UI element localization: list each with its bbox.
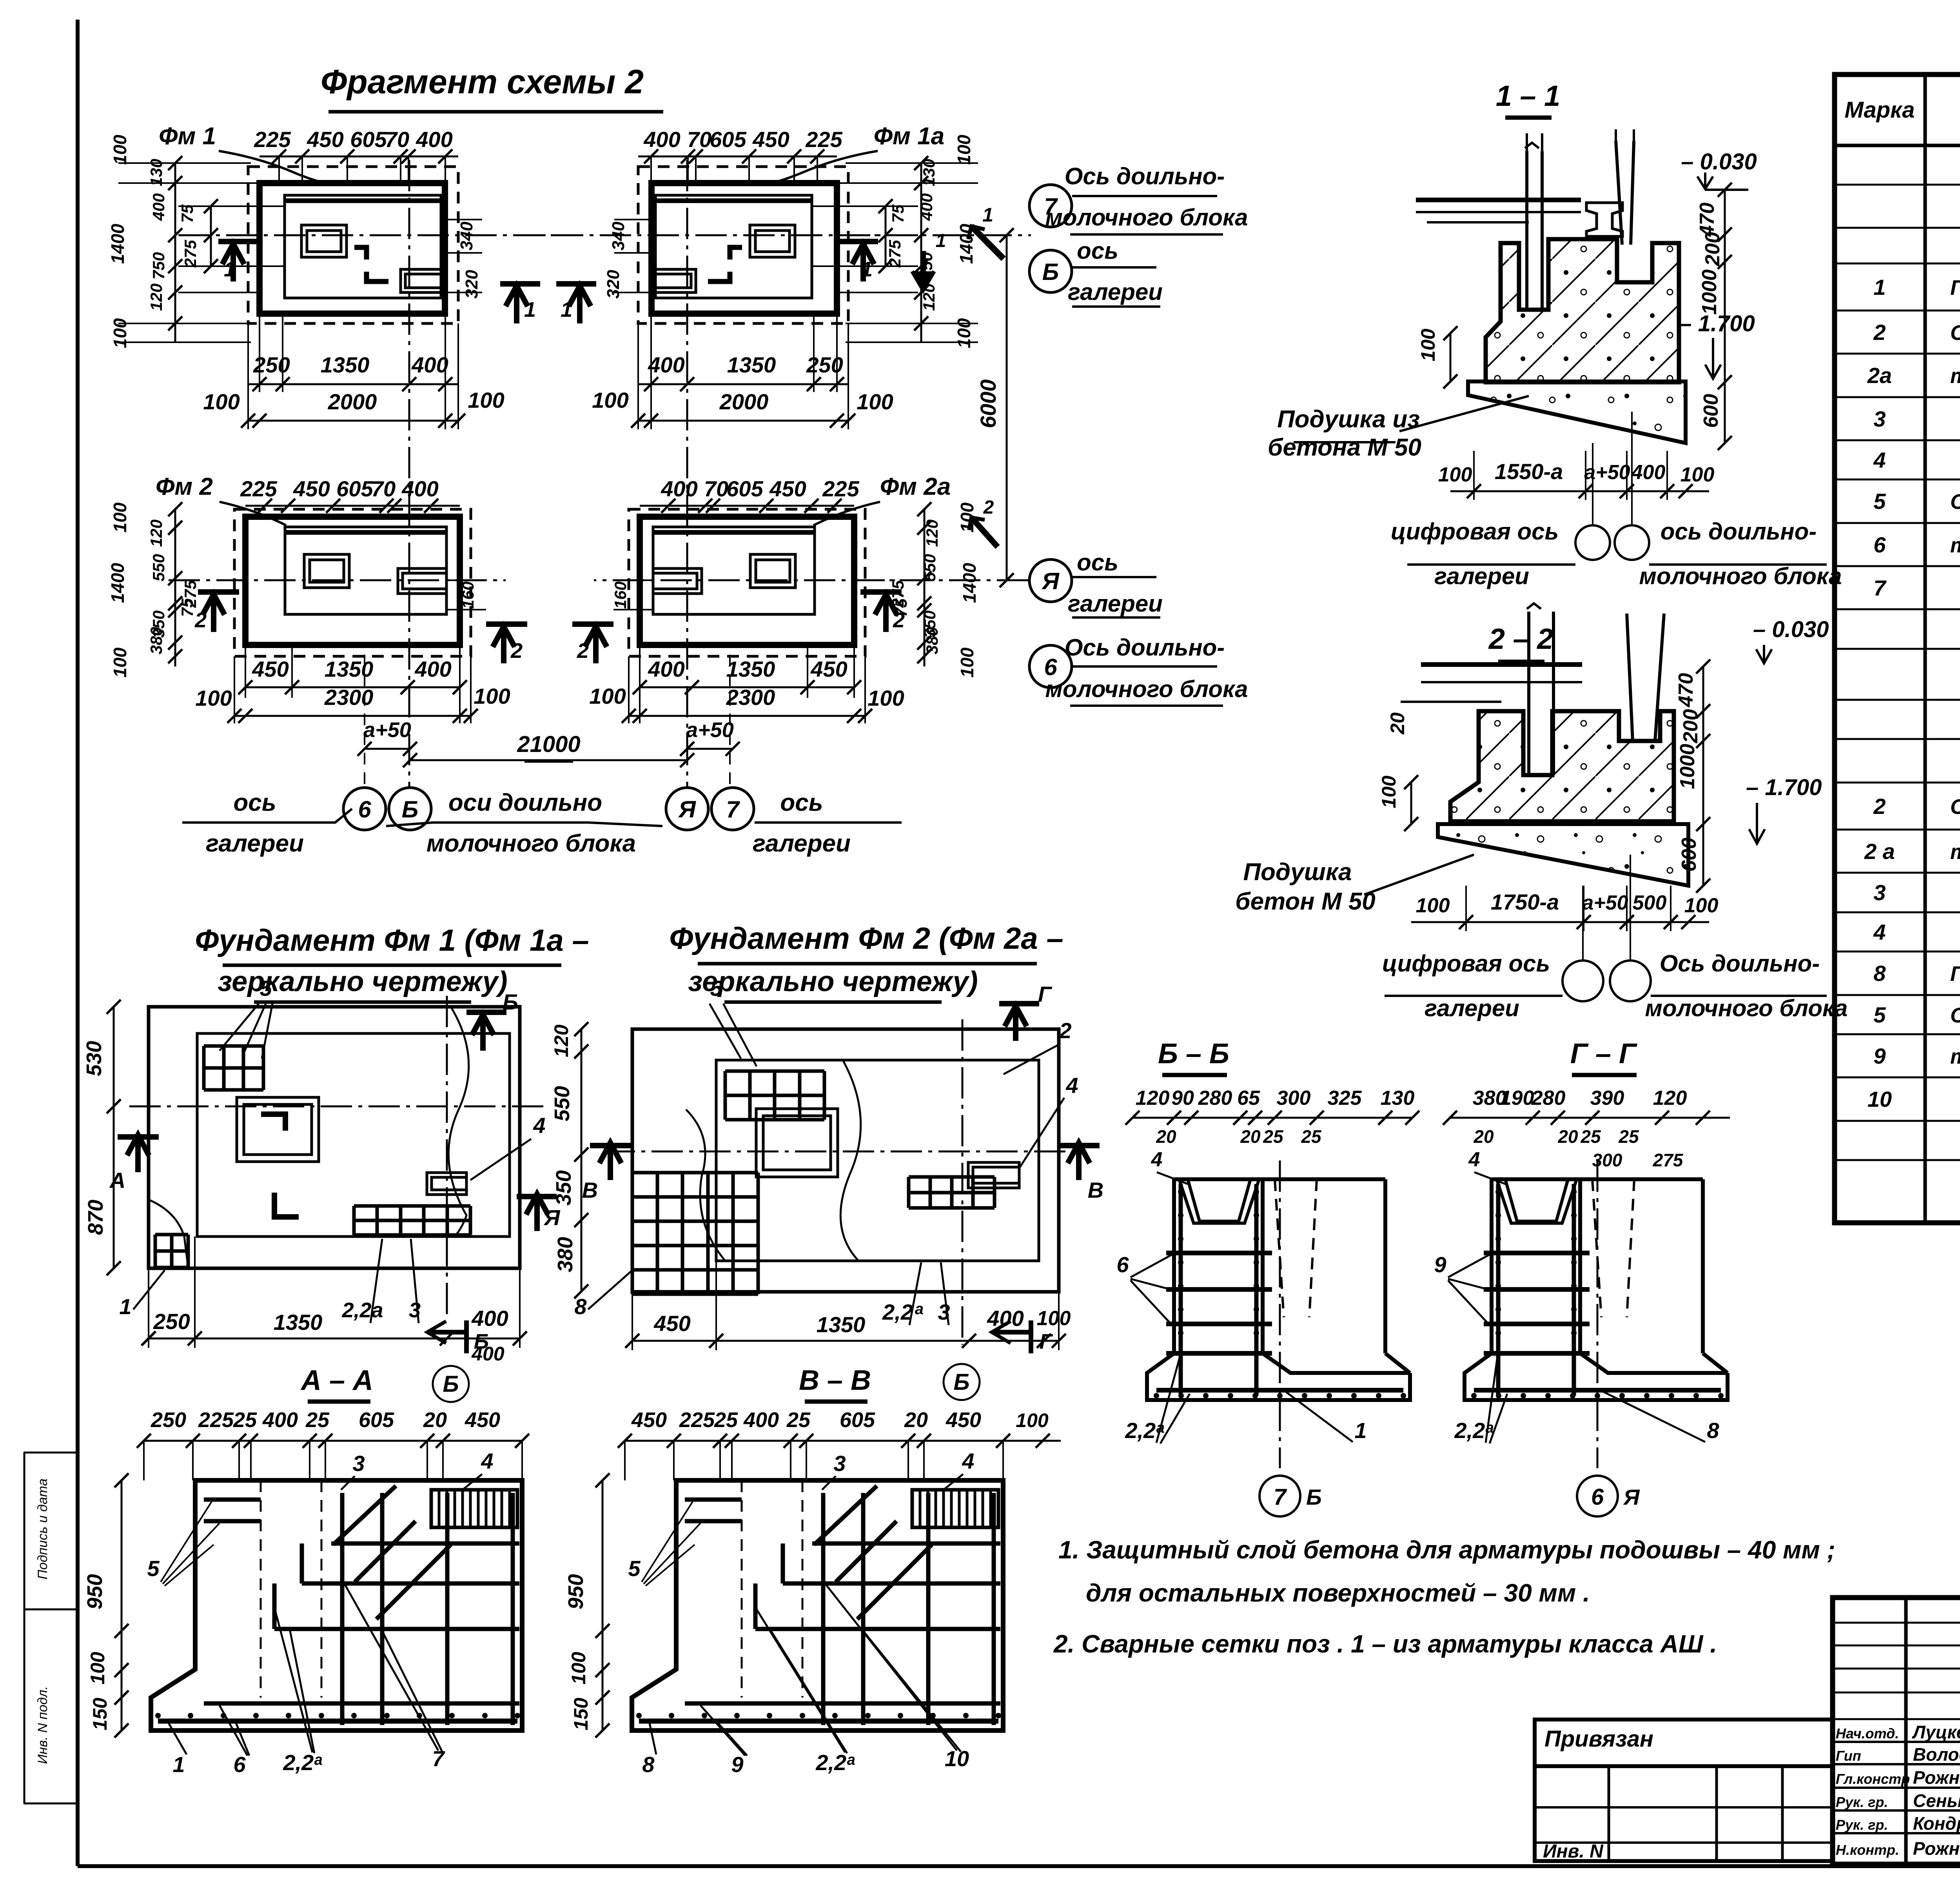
svg-text:2. Сварные сетки поз . 1 –: 2. Сварные сетки поз . 1 – из арматуры к… <box>1053 1630 1717 1658</box>
svg-text:2,2: 2,2 <box>882 1300 913 1324</box>
svg-text:120: 120 <box>923 519 941 547</box>
svg-text:130: 130 <box>147 159 165 186</box>
svg-text:280: 280 <box>1531 1087 1566 1109</box>
svg-text:Фрагмент схемы 2: Фрагмент схемы 2 <box>321 63 644 101</box>
svg-text:1: 1 <box>524 298 536 321</box>
svg-text:380: 380 <box>554 1237 577 1272</box>
svg-text:21000: 21000 <box>517 732 580 757</box>
svg-text:100: 100 <box>1016 1409 1049 1431</box>
svg-text:450: 450 <box>465 1408 500 1432</box>
svg-text:Фундамент Фм 2 (Фм 2а –: Фундамент Фм 2 (Фм 2а – <box>669 921 1063 955</box>
svg-text:470: 470 <box>1696 203 1719 237</box>
svg-text:Я: Я <box>543 1205 561 1230</box>
svg-text:молочного блока: молочного блока <box>426 830 636 857</box>
svg-text:400: 400 <box>661 476 697 501</box>
svg-text:то же: то же <box>1950 364 1960 388</box>
svg-text:870: 870 <box>84 1200 107 1235</box>
svg-text:25: 25 <box>305 1408 330 1432</box>
svg-text:Одиночный стержень: Одиночный стержень <box>1950 490 1960 514</box>
svg-text:Г – Г: Г – Г <box>1570 1038 1637 1070</box>
svg-text:20: 20 <box>423 1408 447 1432</box>
svg-text:1400: 1400 <box>107 563 128 603</box>
svg-text:120: 120 <box>1653 1087 1687 1109</box>
svg-text:450: 450 <box>252 657 289 681</box>
svg-text:130: 130 <box>920 159 938 186</box>
svg-text:225: 225 <box>822 476 859 501</box>
svg-text:Н.контр.: Н.контр. <box>1836 1842 1899 1858</box>
svg-text:1350: 1350 <box>274 1310 323 1335</box>
svg-text:8: 8 <box>574 1294 587 1319</box>
svg-text:то же: то же <box>1950 534 1960 557</box>
svg-text:Б: Б <box>1306 1485 1322 1509</box>
svg-text:2: 2 <box>577 639 589 663</box>
svg-text:Ось доильно-: Ось доильно- <box>1065 634 1225 661</box>
svg-text:100: 100 <box>1378 775 1400 808</box>
svg-text:400: 400 <box>987 1306 1024 1331</box>
svg-text:6: 6 <box>1116 1252 1129 1277</box>
svg-text:Привязан: Привязан <box>1544 1726 1653 1752</box>
svg-text:1350: 1350 <box>726 657 775 681</box>
svg-text:Нач.отд.: Нач.отд. <box>1836 1725 1899 1741</box>
svg-text:75: 75 <box>892 598 910 617</box>
svg-text:100: 100 <box>110 318 130 348</box>
svg-text:400: 400 <box>648 657 684 681</box>
svg-text:2а: 2а <box>1867 363 1892 388</box>
svg-text:Ось доильно-: Ось доильно- <box>1660 950 1820 977</box>
svg-text:25: 25 <box>1301 1126 1322 1147</box>
svg-text:4: 4 <box>1873 920 1886 944</box>
svg-text:В: В <box>582 1178 598 1202</box>
svg-text:400: 400 <box>411 352 448 377</box>
svg-text:25: 25 <box>1263 1126 1284 1147</box>
svg-text:100: 100 <box>87 1652 109 1685</box>
svg-text:470: 470 <box>1675 673 1697 708</box>
svg-text:Б – Б: Б – Б <box>1158 1038 1229 1070</box>
svg-text:а+50: а+50 <box>1584 461 1630 484</box>
svg-text:2: 2 <box>1873 794 1886 819</box>
svg-text:100: 100 <box>468 388 504 412</box>
svg-text:100: 100 <box>954 134 974 165</box>
svg-text:1350: 1350 <box>727 352 776 377</box>
svg-text:1: 1 <box>861 258 873 281</box>
svg-text:ось: ось <box>1077 549 1118 576</box>
svg-text:100: 100 <box>568 1652 590 1685</box>
svg-text:1000: 1000 <box>1698 269 1721 315</box>
svg-text:молочного блока: молочного блока <box>1045 204 1248 231</box>
svg-text:то же: то же <box>1950 1045 1960 1068</box>
svg-text:100: 100 <box>589 684 626 708</box>
svg-text:Г: Г <box>1039 1330 1053 1353</box>
svg-text:65: 65 <box>1237 1087 1260 1109</box>
svg-text:В: В <box>1088 1178 1103 1202</box>
svg-text:9: 9 <box>1434 1252 1446 1277</box>
svg-text:600: 600 <box>1678 838 1700 872</box>
svg-text:3: 3 <box>1873 407 1886 431</box>
svg-text:340: 340 <box>457 222 476 251</box>
svg-text:7: 7 <box>726 796 740 823</box>
svg-text:Фм 1: Фм 1 <box>159 123 216 150</box>
svg-text:200: 200 <box>1701 232 1724 267</box>
svg-text:550: 550 <box>149 554 168 581</box>
svg-text:400: 400 <box>643 127 680 152</box>
svg-text:100: 100 <box>195 686 232 710</box>
svg-text:750: 750 <box>149 252 168 280</box>
svg-text:225: 225 <box>805 127 842 152</box>
svg-text:6: 6 <box>1591 1484 1604 1510</box>
svg-text:100: 100 <box>954 318 974 348</box>
svg-text:1400: 1400 <box>959 563 980 603</box>
svg-text:160: 160 <box>459 581 477 609</box>
svg-text:8: 8 <box>642 1752 655 1777</box>
svg-text:Рук. гр.: Рук. гр. <box>1836 1794 1888 1810</box>
svg-text:100: 100 <box>592 388 628 412</box>
svg-text:350: 350 <box>552 1170 575 1206</box>
svg-text:4: 4 <box>1468 1148 1480 1171</box>
svg-text:75: 75 <box>178 598 196 617</box>
svg-text:190: 190 <box>1500 1087 1534 1109</box>
svg-text:100: 100 <box>1037 1307 1071 1330</box>
svg-text:100: 100 <box>1684 894 1719 917</box>
svg-text:Луцкевич: Луцкевич <box>1912 1722 1960 1742</box>
svg-text:400: 400 <box>416 127 452 152</box>
svg-text:1750-а: 1750-а <box>1491 890 1559 914</box>
svg-text:280: 280 <box>1198 1087 1232 1109</box>
svg-text:4: 4 <box>533 1113 545 1138</box>
svg-text:150: 150 <box>570 1698 592 1730</box>
svg-text:галереи: галереи <box>206 830 304 857</box>
svg-text:275: 275 <box>181 240 200 268</box>
svg-text:1. Защитный слой бетона дл: 1. Защитный слой бетона для арматуры под… <box>1058 1536 1835 1564</box>
svg-text:8: 8 <box>1873 961 1886 986</box>
svg-text:20: 20 <box>1156 1126 1176 1147</box>
svg-text:100: 100 <box>110 134 130 165</box>
svg-text:390: 390 <box>1590 1087 1624 1109</box>
svg-text:Кондраток: Кондраток <box>1913 1813 1960 1834</box>
svg-text:1350: 1350 <box>321 352 370 377</box>
svg-text:450: 450 <box>631 1408 667 1432</box>
svg-text:– 0.030: – 0.030 <box>1681 149 1757 174</box>
svg-text:9: 9 <box>1873 1044 1886 1068</box>
svg-text:120: 120 <box>147 519 165 547</box>
svg-text:молочного блока: молочного блока <box>1045 676 1248 702</box>
svg-text:5: 5 <box>710 976 722 1001</box>
svg-text:то же: то же <box>1950 840 1960 864</box>
svg-text:Я: Я <box>678 796 696 823</box>
svg-text:4: 4 <box>1151 1148 1163 1171</box>
svg-text:300: 300 <box>1277 1087 1311 1109</box>
svg-text:1: 1 <box>119 1294 131 1319</box>
svg-text:Инв. N подл.: Инв. N подл. <box>35 1686 50 1764</box>
svg-text:Б: Б <box>402 796 418 823</box>
svg-text:6: 6 <box>1873 532 1886 557</box>
svg-text:600: 600 <box>1700 394 1722 428</box>
svg-text:Б: Б <box>503 990 518 1014</box>
svg-text:2: 2 <box>510 639 523 663</box>
svg-text:1550-а: 1550-а <box>1495 459 1563 484</box>
svg-text:для остальных поверхностей: для остальных поверхностей – 30 мм . <box>1086 1579 1590 1607</box>
svg-text:– 1.700: – 1.700 <box>1679 311 1755 336</box>
svg-text:950: 950 <box>564 1574 588 1609</box>
svg-text:1000: 1000 <box>1676 744 1699 789</box>
svg-text:400: 400 <box>414 657 451 681</box>
svg-text:100: 100 <box>1438 463 1472 486</box>
svg-text:250: 250 <box>253 352 290 377</box>
svg-text:70: 70 <box>371 476 396 501</box>
svg-text:5: 5 <box>260 976 272 1001</box>
svg-text:225: 225 <box>679 1408 715 1432</box>
svg-text:605: 605 <box>840 1408 875 1432</box>
svg-text:120: 120 <box>147 283 165 311</box>
svg-text:320: 320 <box>462 270 481 299</box>
svg-text:10: 10 <box>1867 1087 1892 1111</box>
svg-text:Фм 2: Фм 2 <box>156 473 213 500</box>
svg-text:а: а <box>915 1300 924 1318</box>
svg-text:а+50: а+50 <box>363 718 411 742</box>
svg-text:5: 5 <box>1873 489 1886 514</box>
svg-text:1: 1 <box>1873 275 1886 300</box>
svg-text:320: 320 <box>604 270 623 299</box>
svg-text:молочного блока: молочного блока <box>1645 995 1847 1021</box>
svg-text:В – В: В – В <box>799 1365 871 1396</box>
svg-text:2000: 2000 <box>719 389 769 414</box>
svg-text:галереи: галереи <box>1068 279 1163 305</box>
svg-text:400: 400 <box>917 193 936 221</box>
svg-text:Серия 1. 810-2 , Вып. 2: Серия 1. 810-2 , Вып. 2 <box>1950 321 1960 345</box>
svg-text:160: 160 <box>611 581 630 609</box>
svg-text:5: 5 <box>628 1556 641 1581</box>
svg-text:225: 225 <box>240 476 277 501</box>
svg-text:120: 120 <box>1136 1087 1170 1109</box>
svg-text:Серия 1. 810-2 , Вып. 2: Серия 1. 810-2 , Вып. 2 <box>1950 795 1960 819</box>
svg-text:2,2ᵃ: 2,2ᵃ <box>815 1750 855 1775</box>
svg-text:– 0.030: – 0.030 <box>1753 617 1829 642</box>
svg-text:340: 340 <box>609 222 628 251</box>
svg-text:70: 70 <box>704 476 728 501</box>
svg-text:450: 450 <box>307 127 343 152</box>
svg-text:400: 400 <box>471 1343 505 1365</box>
svg-text:400: 400 <box>1631 461 1666 484</box>
svg-text:5: 5 <box>147 1556 160 1581</box>
svg-text:2300: 2300 <box>324 685 374 710</box>
svg-text:1350: 1350 <box>325 657 374 681</box>
svg-text:ось доильно-: ось доильно- <box>1661 518 1817 545</box>
svg-text:325: 325 <box>1328 1087 1362 1109</box>
svg-text:100: 100 <box>1417 329 1439 361</box>
svg-text:450: 450 <box>752 127 789 152</box>
svg-text:300: 300 <box>1592 1150 1622 1170</box>
svg-text:бетона М 50: бетона М 50 <box>1268 434 1421 461</box>
svg-text:120: 120 <box>550 1024 572 1057</box>
svg-text:Фундамент Фм 1 (Фм 1а –: Фундамент Фм 1 (Фм 1а – <box>195 923 589 957</box>
svg-text:Я: Я <box>1041 568 1060 594</box>
svg-text:Одиночный стержень: Одиночный стержень <box>1950 1004 1960 1027</box>
svg-text:130: 130 <box>1381 1087 1415 1109</box>
svg-text:8: 8 <box>1707 1418 1719 1443</box>
svg-text:2 а: 2 а <box>1864 839 1895 864</box>
svg-text:1: 1 <box>224 258 236 281</box>
svg-text:Гл.констр: Гл.констр <box>1836 1771 1910 1787</box>
svg-text:605: 605 <box>350 127 387 152</box>
svg-text:Гост 8478 - 66: Гост 8478 - 66 <box>1950 276 1960 300</box>
svg-text:Я: Я <box>1623 1485 1640 1509</box>
svg-text:бетон М 50: бетон М 50 <box>1235 888 1376 915</box>
svg-text:Подушка: Подушка <box>1243 859 1352 886</box>
svg-text:цифровая ось: цифровая ось <box>1382 950 1550 977</box>
svg-text:1350: 1350 <box>817 1312 866 1337</box>
svg-text:4: 4 <box>1065 1073 1078 1098</box>
svg-text:ось: ось <box>233 789 276 816</box>
svg-text:450: 450 <box>653 1311 690 1336</box>
svg-text:100: 100 <box>1416 894 1450 917</box>
svg-text:450: 450 <box>946 1408 981 1432</box>
svg-text:галереи: галереи <box>1425 995 1519 1021</box>
svg-text:400: 400 <box>648 352 684 377</box>
svg-text:7: 7 <box>1873 576 1887 600</box>
svg-text:25: 25 <box>786 1408 811 1432</box>
svg-text:а+50: а+50 <box>686 718 734 742</box>
svg-text:молочного блока: молочного блока <box>1639 563 1842 589</box>
svg-text:275: 275 <box>886 240 904 268</box>
svg-text:20: 20 <box>1473 1126 1494 1147</box>
svg-text:ось: ось <box>1077 238 1118 264</box>
svg-text:3: 3 <box>352 1451 365 1476</box>
svg-text:2: 2 <box>1059 1018 1071 1043</box>
svg-text:1: 1 <box>172 1752 185 1777</box>
svg-text:Володина: Володина <box>1913 1744 1960 1765</box>
svg-text:25: 25 <box>714 1408 738 1432</box>
svg-text:100: 100 <box>867 686 904 710</box>
svg-text:галереи: галереи <box>1068 590 1163 617</box>
svg-text:6: 6 <box>233 1752 246 1777</box>
svg-text:Рожненко: Рожненко <box>1913 1838 1960 1859</box>
svg-text:Рожненко: Рожненко <box>1913 1767 1960 1788</box>
svg-text:4: 4 <box>1873 448 1886 472</box>
svg-text:75: 75 <box>178 204 196 223</box>
svg-text:галереи: галереи <box>753 830 851 857</box>
svg-text:400: 400 <box>149 193 168 221</box>
svg-text:250: 250 <box>151 1408 186 1432</box>
svg-text:Б: Б <box>1042 259 1059 285</box>
svg-text:20: 20 <box>1240 1126 1261 1147</box>
svg-text:Подпись и дата: Подпись и дата <box>35 1478 50 1579</box>
svg-text:2000: 2000 <box>328 389 377 414</box>
svg-text:605: 605 <box>726 476 763 501</box>
svg-text:Сенько: Сенько <box>1913 1790 1960 1811</box>
svg-text:275: 275 <box>1653 1150 1684 1170</box>
svg-text:500: 500 <box>1633 892 1667 914</box>
svg-text:150: 150 <box>89 1698 111 1730</box>
svg-text:25: 25 <box>233 1408 257 1432</box>
svg-text:605: 605 <box>710 127 746 152</box>
svg-text:Гип: Гип <box>1836 1748 1861 1764</box>
svg-text:ось: ось <box>780 789 823 816</box>
svg-text:550: 550 <box>920 554 939 581</box>
svg-text:цифровая ось: цифровая ось <box>1391 518 1559 545</box>
svg-text:4: 4 <box>481 1449 493 1473</box>
svg-text:100: 100 <box>203 389 240 414</box>
svg-text:380: 380 <box>147 627 165 654</box>
svg-text:2 – 2: 2 – 2 <box>1488 623 1553 655</box>
svg-text:450: 450 <box>293 476 330 501</box>
svg-text:Гост 8478 - 66: Гост 8478 - 66 <box>1950 962 1960 986</box>
svg-text:605: 605 <box>336 476 373 501</box>
svg-text:галереи: галереи <box>1434 563 1529 589</box>
svg-text:250: 250 <box>153 1309 190 1334</box>
svg-text:70: 70 <box>385 127 409 152</box>
svg-text:100: 100 <box>474 684 510 708</box>
svg-text:75: 75 <box>889 204 907 223</box>
svg-text:– 1.700: – 1.700 <box>1746 775 1822 800</box>
svg-text:225: 225 <box>254 127 291 152</box>
svg-text:6000: 6000 <box>976 380 1000 429</box>
svg-text:5: 5 <box>1873 1002 1886 1027</box>
svg-text:3: 3 <box>833 1451 846 1476</box>
svg-text:70: 70 <box>687 127 711 152</box>
svg-text:20: 20 <box>904 1408 928 1432</box>
svg-text:20: 20 <box>1387 712 1408 735</box>
svg-text:90: 90 <box>1171 1087 1194 1109</box>
svg-text:Фм 2а: Фм 2а <box>880 473 951 500</box>
svg-text:А – А: А – А <box>300 1365 373 1396</box>
svg-text:950: 950 <box>83 1574 107 1609</box>
svg-text:2: 2 <box>1873 320 1886 345</box>
svg-text:100: 100 <box>110 502 130 532</box>
svg-text:20: 20 <box>1557 1126 1578 1147</box>
svg-text:7: 7 <box>1274 1484 1287 1510</box>
svg-text:1: 1 <box>936 231 946 251</box>
svg-text:400: 400 <box>262 1408 298 1432</box>
svg-text:9: 9 <box>731 1752 743 1777</box>
svg-text:530: 530 <box>82 1041 106 1076</box>
svg-text:550: 550 <box>550 1086 574 1121</box>
svg-text:Инв. N: Инв. N <box>1543 1841 1604 1862</box>
svg-text:1 – 1: 1 – 1 <box>1496 80 1561 112</box>
svg-text:100: 100 <box>1681 463 1715 486</box>
svg-text:зеркально чертежу): зеркально чертежу) <box>688 966 978 997</box>
svg-text:225: 225 <box>198 1408 234 1432</box>
svg-text:450: 450 <box>769 476 806 501</box>
svg-text:6: 6 <box>358 796 371 823</box>
svg-text:400: 400 <box>743 1408 779 1432</box>
svg-text:605: 605 <box>359 1408 394 1432</box>
svg-text:400: 400 <box>471 1306 508 1331</box>
svg-text:450: 450 <box>810 657 847 681</box>
svg-text:400: 400 <box>401 476 438 501</box>
svg-text:1: 1 <box>561 298 572 321</box>
svg-text:Г: Г <box>1038 982 1053 1006</box>
svg-text:4: 4 <box>962 1449 974 1473</box>
svg-text:Фм 1а: Фм 1а <box>874 123 944 150</box>
svg-text:380: 380 <box>923 627 941 654</box>
svg-text:Подушка из: Подушка из <box>1277 406 1420 433</box>
svg-text:100: 100 <box>957 647 977 677</box>
svg-text:2: 2 <box>983 497 994 518</box>
svg-text:Марка: Марка <box>1844 97 1915 123</box>
svg-text:оси доильно: оси доильно <box>448 789 602 816</box>
svg-text:1400: 1400 <box>107 223 128 264</box>
svg-text:2,2а: 2,2а <box>341 1298 383 1322</box>
svg-text:Ось доильно-: Ось доильно- <box>1065 163 1225 189</box>
svg-text:Б: Б <box>953 1369 969 1395</box>
svg-text:2,2ᵃ: 2,2ᵃ <box>283 1750 322 1775</box>
svg-text:2300: 2300 <box>726 685 775 710</box>
svg-text:А: А <box>109 1168 125 1193</box>
svg-text:1: 1 <box>1354 1418 1367 1443</box>
svg-text:100: 100 <box>110 647 130 677</box>
svg-text:Рук. гр.: Рук. гр. <box>1836 1817 1888 1833</box>
svg-text:3: 3 <box>1873 880 1886 905</box>
svg-text:а+50: а+50 <box>1582 892 1628 914</box>
